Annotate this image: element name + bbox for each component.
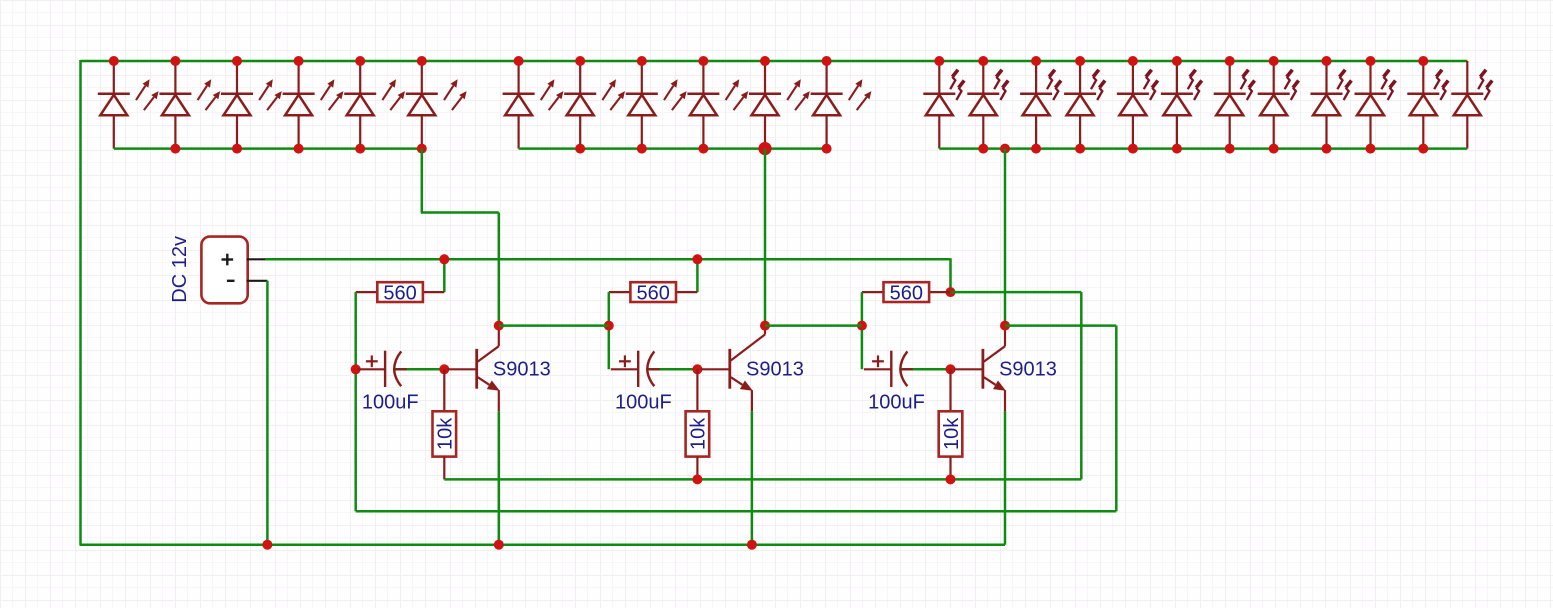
wire: +12V rail [265,258,951,261]
wire: Q2 collector bus to C3 [765,324,862,327]
svg-text:560: 560 [637,282,670,304]
junction: top rail / D23 [1418,56,1428,66]
junction: +12V rail / R1 [439,254,449,264]
junction: top rail / D9 [637,56,647,66]
LED D2 (group 1) [159,61,220,149]
capacitor C3 - plate (curved) [900,351,907,386]
capacitor C2 plus mark [619,360,631,362]
junction: top rail / D22 [1366,56,1376,66]
junction: Q1 collector bus / C2 node [604,321,614,331]
wire: feedback right vertical [1115,326,1118,512]
transistor Q2 S9013 [700,368,729,370]
wire: R3 left down to collector bus [861,292,864,369]
resistor R6 10k bottom lead [949,457,951,480]
resistor R3 560 body [884,282,930,302]
capacitor C2 - lead [646,368,660,370]
battery minus mark [227,280,235,282]
capacitor C3 - lead wire [902,368,951,371]
svg-text:560: 560 [383,282,416,304]
battery plus mark [222,258,234,260]
battery BT1 body (DC 12v) [201,237,247,304]
LED D6 (group 1) [406,61,467,149]
wire: group 1 takeoff down [421,149,424,213]
LED D11 (group 2) [749,61,810,149]
wire: left return (top rail to ground rail) [79,60,82,545]
svg-text:100uF: 100uF [868,391,925,413]
LED D4 (group 1) [283,61,344,149]
LED D22 (group 3) [1355,61,1396,149]
resistor R2 560 right lead [676,291,697,293]
junction: Q1 collector node [494,321,504,331]
LED D1 (group 1) [98,61,159,149]
junction: top rail / D15 [1031,56,1041,66]
wire: +12V tap to R2 (560) [696,259,699,292]
resistor R2 560 left lead [609,291,632,293]
LED D8 (group 2) [564,61,625,149]
junction: group3 anode rail / D21 [1322,144,1332,154]
capacitor C1 100uF + lead [358,368,385,370]
wire: Q3 emitter to ground rail [1004,411,1007,544]
LED D18 (group 3) [1161,61,1202,149]
junction: top rail / D3 [232,56,242,66]
junction: group2 anode rail / D8 [575,144,585,154]
resistor R3 560 left lead [862,291,885,293]
wire: R1 left / C1 + node / feedback from Q3 [354,292,357,511]
wire: minus lead down to ground rail [266,281,269,545]
LED D19 (group 3) [1214,61,1255,149]
junction: top rail / D8 [575,56,585,66]
capacitor C1 - lead wire [396,368,445,371]
junction: ground rail / Q1 emitter [494,540,504,550]
junction: top rail / D1 [109,56,119,66]
resistor R4 10k top lead [443,369,445,411]
resistor R1 560 left lead [356,291,379,293]
junction: Q2 collector node [760,321,770,331]
LED D14 (group 3) [967,61,1008,149]
junction: top rail / D18 [1172,56,1182,66]
wire: group 1 drop to Q1 collector [498,213,501,326]
junction: top rail / D12 [822,56,832,66]
capacitor C2 - plate (curved) [647,351,654,386]
LED D12 (group 2) [811,61,872,149]
junction: group3 anode rail / D19 [1225,144,1235,154]
resistor R1 560 body [377,282,423,302]
wire: +12V rail end down to R3 (560) [949,258,952,292]
junction: group3 anode rail / D20 [1269,144,1279,154]
resistor R1 560 right lead [423,291,444,293]
junction: Q1 base node [439,364,449,374]
wire: ground rail [80,543,1006,546]
wire: group 3 drop to Q3 collector [1004,149,1007,326]
wire: feedback bottom horizontal to C1 node [356,510,1117,513]
junction: ground rail / Q2 emitter [747,540,757,550]
junction: top rail / D21 [1322,56,1332,66]
wire: 10k bias bus [444,478,1081,481]
junction: Q3 collector node [1000,321,1010,331]
wire: bias bus up right vertical [1080,292,1083,479]
svg-text:S9013: S9013 [746,358,804,380]
junction: group2 anode rail / D12 [822,144,832,154]
junction: top rail / D20 [1269,56,1279,66]
junction: group3 anode rail / D14 [978,144,988,154]
capacitor C3 + plate [890,351,892,387]
junction: group3 anode rail / D16 [1075,144,1085,154]
junction: group2 anode rail / D10 [698,144,708,154]
junction: group3 anode rail / D23 [1418,144,1428,154]
LED D15 (group 3) [1020,61,1061,149]
wire: Q1 collector bus to C2 [499,324,609,327]
LED D7 (group 2) [503,61,564,149]
capacitor C2 100uF + lead [611,368,638,370]
svg-text:560: 560 [890,282,923,304]
junction: C1 + plate node [351,364,361,374]
resistor R5 10k top lead [696,369,698,411]
wire: group 1 anode rail [114,147,422,150]
resistor R4 10k body [433,411,457,456]
wire: R2 left down to collector bus [608,292,611,369]
junction: group3 anode rail / D17 [1128,144,1138,154]
junction: group3 anode rail takeoff [1000,144,1010,154]
capacitor C1 - lead [393,368,407,370]
LED D21 (group 3) [1311,61,1352,149]
resistor R6 10k body [939,411,963,456]
junction: Q3 base node [946,364,956,374]
resistor R5 10k body [686,411,710,456]
LED D20 (group 3) [1258,61,1299,149]
wire: group 2 anode rail [519,147,827,150]
LED D16 (group 3) [1064,61,1105,149]
capacitor C3 100uF + lead [864,368,891,370]
LED D10 (group 2) [687,61,748,149]
junction: top rail / D5 [355,56,365,66]
transistor Q3 S9013 [954,368,983,370]
junction: group3 anode rail / D22 [1366,144,1376,154]
junction: group1 anode rail / D6 [417,144,427,154]
LED D9 (group 2) [626,61,687,149]
junction: ground rail / battery minus [262,540,272,550]
capacitor C2 + plate [637,351,639,387]
junction: top rail / D14 [978,56,988,66]
resistor R5 10k bottom lead [696,457,698,480]
LED D17 (group 3) [1117,61,1158,149]
capacitor C2 - lead wire [649,368,698,371]
junction: group1 anode rail / D3 [232,144,242,154]
junction: top rail / D2 [170,56,180,66]
junction: top rail / D19 [1225,56,1235,66]
svg-text:100uF: 100uF [615,391,672,413]
wire: Q2 emitter to ground rail [751,411,754,544]
wire: group 1 jog horizontal [421,211,499,214]
svg-text:S9013: S9013 [493,358,551,380]
LED D13 (group 3) [923,61,964,149]
junction: R3 right lead node [946,287,956,297]
junction: group1 anode rail / D2 [170,144,180,154]
junction: group2 anode rail / D9 [637,144,647,154]
battery - pin [247,280,268,282]
junction: Q2 collector bus / C3 node [857,321,867,331]
junction: group1 anode rail / D5 [355,144,365,154]
junction: top rail / D6 [417,56,427,66]
svg-text:10k: 10k [688,417,710,450]
junction: top rail / D16 [1075,56,1085,66]
capacitor C1 + plate [384,351,386,387]
LED D24 (group 3) [1451,61,1492,149]
capacitor C1 plus mark [366,360,378,362]
transistor Q1 S9013 [447,368,476,370]
junction: top rail / D4 [294,56,304,66]
battery + pin [247,258,267,260]
wire: Q1 emitter to ground rail [498,411,501,544]
junction: bias bus / R6 10k [946,474,956,484]
wire: Q3 collector bus to feedback [1005,324,1116,327]
junction: group2 anode rail / D11 [758,142,771,155]
junction: top rail / D7 [514,56,524,66]
svg-text:10k: 10k [435,417,457,450]
svg-text:10k: 10k [941,417,963,450]
junction: +12V rail / R2 [692,254,702,264]
LED D23 (group 3) [1407,61,1448,149]
resistor R4 10k bottom lead [443,457,445,480]
wire: bias bus link to +12V node [951,291,1082,294]
junction: top rail / D13 [934,56,944,66]
svg-text:S9013: S9013 [999,358,1057,380]
wire: +12V tap to R1 (560) [443,259,446,292]
resistor R2 560 body [630,282,676,302]
wire: top cathode rail [81,60,1468,63]
junction: top rail / D10 [698,56,708,66]
LED D5 (group 1) [344,61,405,149]
junction: bias bus / R5 10k [692,474,702,484]
junction: group1 anode rail / D4 [294,144,304,154]
svg-text:100uF: 100uF [362,391,419,413]
resistor R6 10k top lead [949,369,951,411]
junction: group3 anode rail / D18 [1172,144,1182,154]
resistor R3 560 right lead [929,291,950,293]
LED D3 (group 1) [221,61,282,149]
junction: top rail / D11 [760,56,770,66]
capacitor C1 - plate (curved) [394,351,401,386]
wire: group 3 anode rail [939,147,1467,150]
capacitor C3 - lead [899,368,913,370]
capacitor C3 plus mark [872,360,884,362]
junction: group3 anode rail / D15 [1031,144,1041,154]
junction: Q2 base node [692,364,702,374]
svg-text:DC 12v: DC 12v [169,236,191,303]
wire: group 2 drop to Q2 collector [764,149,767,326]
junction: top rail / D17 [1128,56,1138,66]
